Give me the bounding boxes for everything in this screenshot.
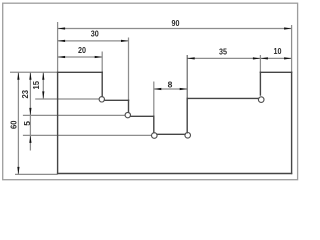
part top edge left block <box>58 71 103 73</box>
arrow 30 left <box>58 40 66 42</box>
svg-text:10: 10 <box>274 46 282 56</box>
arrow 20 left <box>58 56 66 58</box>
arrow 35 left <box>187 57 195 59</box>
part wall A <box>101 72 103 96</box>
part bottom edge <box>58 173 292 175</box>
arrow 23 top <box>29 72 31 80</box>
dim line 20 <box>58 56 103 58</box>
svg-text:23: 23 <box>20 90 30 99</box>
arrow 15 bottom <box>42 91 44 99</box>
dim line 30 <box>58 40 129 42</box>
ext line surface1 left (15 dim) <box>35 98 99 100</box>
dim line 10 <box>260 57 291 59</box>
svg-text:15: 15 <box>31 81 41 90</box>
svg-text:60: 60 <box>9 120 19 129</box>
part wall D (notch right) <box>186 98 188 132</box>
part surface 1 <box>104 99 128 101</box>
arrow 60 bottom <box>17 167 19 175</box>
arrow 90 left <box>58 27 66 29</box>
part surface 3 <box>187 97 258 99</box>
arrow 15 top <box>42 72 44 80</box>
arrow 60 top <box>17 72 19 80</box>
part left edge <box>57 72 59 173</box>
relief circle A <box>99 97 104 102</box>
dim line 35 <box>187 57 260 59</box>
svg-text:20: 20 <box>78 45 86 55</box>
svg-text:35: 35 <box>219 46 227 56</box>
dim line 23 and 5 with tail <box>29 72 31 150</box>
ext line top-left (top surface extended left) <box>10 71 58 73</box>
svg-text:5: 5 <box>22 121 32 126</box>
arrow 10 right <box>284 57 292 59</box>
arrow 90 right <box>284 27 292 29</box>
arrow 10 left <box>260 57 268 59</box>
relief circle D <box>185 133 191 139</box>
relief circle E <box>258 97 264 103</box>
ext line wall B up (30 dim) <box>128 38 130 101</box>
ext line wall A up (20 dim) <box>101 52 103 73</box>
relief circle B <box>125 112 130 117</box>
drawing border frame <box>3 3 298 180</box>
ext line wall D up (35/8 dims, darker) <box>186 55 188 98</box>
arrow 5 bottom <box>29 135 31 143</box>
arrow 35 right <box>253 57 261 59</box>
ext line right edge up (90 dim) <box>291 25 293 72</box>
arrow 23 bottom / 5 top <box>29 108 31 116</box>
dim line 60 <box>17 72 19 174</box>
part wall B <box>128 100 130 112</box>
ext line wall E up (35/10 dims) <box>259 55 261 72</box>
arrow 30 right <box>121 40 129 42</box>
ext line notch left wall up (8 dim) <box>153 82 155 117</box>
dim line 8 <box>154 88 187 90</box>
ext line left edge extended up <box>57 22 59 72</box>
relief circle C <box>152 133 158 139</box>
ext line surface2 left (23/5 dims) <box>23 114 125 116</box>
part wall E <box>259 72 261 95</box>
svg-text:30: 30 <box>91 29 99 39</box>
svg-text:90: 90 <box>172 18 180 28</box>
part right edge <box>291 72 293 173</box>
ext line notch bottom left (5 dim) <box>23 134 152 136</box>
arrow 8 left <box>154 88 162 90</box>
svg-text:8: 8 <box>168 79 173 89</box>
arrow 20 right <box>95 56 103 58</box>
part top edge right block <box>260 71 291 73</box>
part wall C (notch left) <box>153 116 155 133</box>
ext line bottom edge extended left (60 dim) <box>15 173 58 175</box>
arrow 8 right <box>180 88 188 90</box>
dim line 15 <box>42 72 44 99</box>
part surface 2 <box>130 115 153 117</box>
part notch bottom <box>157 133 185 135</box>
dim line 90 <box>58 28 292 30</box>
